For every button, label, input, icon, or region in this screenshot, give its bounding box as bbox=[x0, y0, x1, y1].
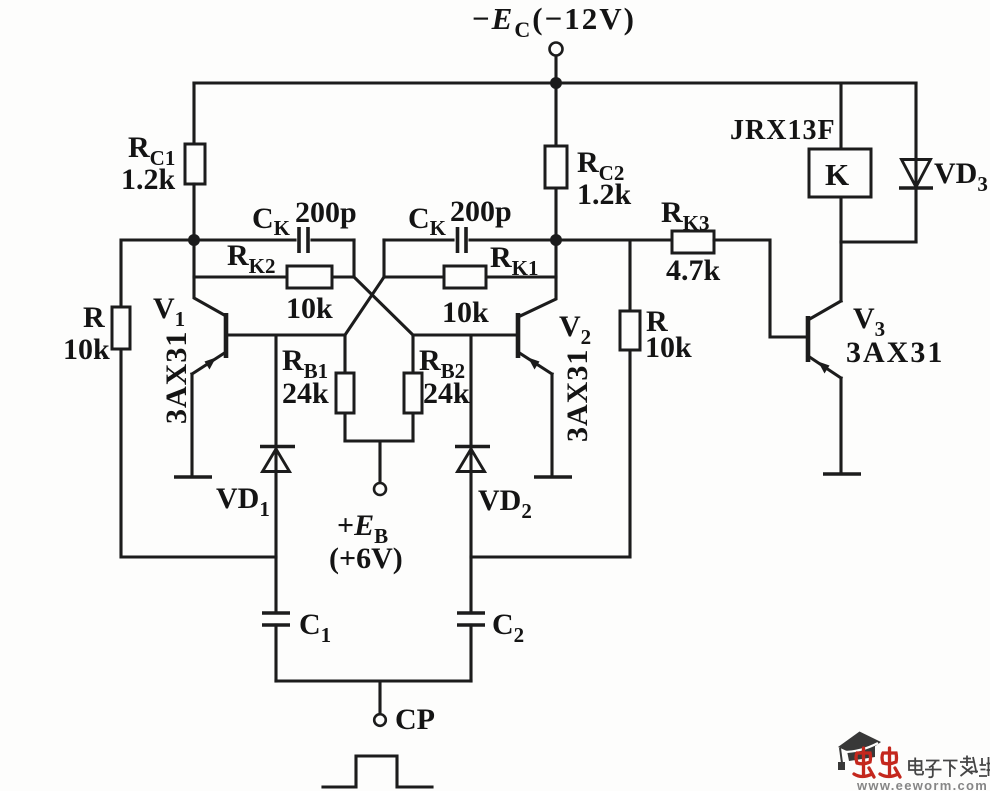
wire V2 base line bbox=[413, 333, 518, 336]
resistor R right 10k bbox=[620, 305, 692, 364]
node junction top rail bbox=[550, 77, 562, 89]
diode VD3 bbox=[899, 83, 988, 242]
resistor RC2 1.2k bbox=[545, 83, 632, 240]
svg-text:VD3: VD3 bbox=[934, 157, 988, 196]
svg-text:VD1: VD1 bbox=[216, 482, 270, 521]
svg-text:1.2k: 1.2k bbox=[121, 163, 176, 196]
wire left R bottom to VD1 node bbox=[121, 349, 276, 557]
wire RC1 top lead bbox=[192, 83, 195, 144]
logo chongchong red characters bbox=[854, 748, 900, 777]
svg-text:10k: 10k bbox=[286, 292, 333, 325]
svg-text:VD2: VD2 bbox=[478, 484, 532, 523]
wire right R branch bbox=[628, 240, 631, 311]
diode VD1 bbox=[216, 335, 295, 613]
node V1 collector junction bbox=[188, 234, 200, 246]
transistor V3 3AX31 bbox=[808, 242, 944, 474]
svg-text:V2: V2 bbox=[559, 310, 591, 349]
resistor RK2 10k bbox=[194, 239, 354, 325]
capacitor CK left 200p bbox=[194, 196, 357, 253]
svg-text:(+6V): (+6V) bbox=[329, 542, 403, 575]
svg-text:V1: V1 bbox=[153, 292, 185, 331]
wire RB junction to EB terminal bbox=[345, 441, 413, 483]
svg-text:200p: 200p bbox=[450, 195, 512, 228]
node CP input terminal bbox=[374, 703, 435, 736]
svg-text:RK3: RK3 bbox=[661, 196, 710, 235]
node -EC supply terminal bbox=[472, 1, 636, 56]
logo graduation cap icon bbox=[838, 732, 881, 771]
svg-text:JRX13F: JRX13F bbox=[730, 115, 836, 146]
resistor RK3 4.7k bbox=[661, 196, 721, 287]
resistor R left 10k bbox=[63, 301, 130, 366]
svg-text:K: K bbox=[825, 157, 849, 192]
wire V1 collector lead bbox=[194, 240, 226, 316]
wire supply stub bbox=[554, 56, 557, 83]
relay K JRX13F bbox=[730, 83, 871, 242]
svg-text:CP: CP bbox=[395, 703, 435, 736]
resistor RB1 24k bbox=[282, 335, 354, 441]
resistor RK1 10k bbox=[384, 241, 556, 329]
node +EB supply terminal bbox=[329, 483, 403, 575]
svg-text:200p: 200p bbox=[295, 196, 357, 229]
svg-text:24k: 24k bbox=[282, 377, 329, 410]
svg-text:3AX31: 3AX31 bbox=[846, 336, 944, 369]
wire top rail bbox=[194, 81, 916, 84]
wire cross-couple left net to V2 base bbox=[354, 277, 413, 335]
wire collector node to RK3 bbox=[556, 238, 672, 241]
wire bottom CP bus bbox=[276, 681, 471, 714]
transistor V2 3AX31 bbox=[518, 240, 594, 477]
wire relay bottom to VD3 bbox=[841, 240, 916, 243]
svg-text:R: R bbox=[83, 301, 105, 334]
svg-text:CK: CK bbox=[408, 202, 447, 240]
wire V1 base line bbox=[226, 333, 345, 336]
wire RK3 to V3 base bbox=[714, 240, 808, 337]
wire right R bottom to C2 bus bbox=[471, 350, 630, 557]
svg-text:CK: CK bbox=[252, 202, 291, 240]
svg-text:24k: 24k bbox=[423, 377, 470, 410]
wire left R top bbox=[121, 240, 194, 307]
ground V3 emitter bbox=[823, 472, 861, 476]
svg-text:−EC(−12V): −EC(−12V) bbox=[472, 1, 636, 42]
wire CK left to RK2 line bbox=[352, 240, 355, 277]
logo site name characters bbox=[909, 756, 990, 778]
svg-text:3AX31: 3AX31 bbox=[561, 349, 594, 442]
node V2 collector junction bbox=[550, 234, 562, 246]
capacitor C2 bbox=[457, 608, 524, 681]
svg-text:10k: 10k bbox=[645, 331, 692, 364]
svg-text:RK2: RK2 bbox=[227, 239, 276, 278]
diode VD2 bbox=[455, 335, 532, 613]
svg-text:RK1: RK1 bbox=[490, 241, 539, 280]
svg-text:10k: 10k bbox=[63, 333, 110, 366]
svg-text:1.2k: 1.2k bbox=[577, 178, 632, 211]
wire CK right to RK1 line bbox=[382, 240, 385, 277]
svg-text:www.eeworm.com: www.eeworm.com bbox=[856, 778, 988, 791]
svg-text:C1: C1 bbox=[299, 608, 331, 647]
wire RC1 bottom lead bbox=[192, 184, 195, 240]
resistor RC1 bbox=[121, 131, 205, 196]
wire cross-couple right net to V1 base bbox=[345, 277, 384, 335]
resistor RB2 24k bbox=[404, 335, 470, 441]
svg-text:3AX31: 3AX31 bbox=[160, 331, 193, 424]
capacitor CK right 200p bbox=[384, 195, 556, 253]
svg-text:C2: C2 bbox=[492, 608, 524, 647]
transistor V1 3AX31 bbox=[153, 292, 226, 477]
svg-text:10k: 10k bbox=[442, 296, 489, 329]
capacitor C1 bbox=[262, 608, 331, 681]
svg-text:4.7k: 4.7k bbox=[666, 254, 721, 287]
trigger pulse symbol bbox=[323, 756, 432, 787]
